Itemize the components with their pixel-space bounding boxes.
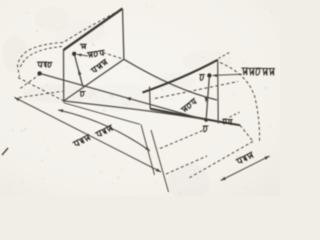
label dakkhin rotated: [91, 59, 108, 74]
ascent ga to ka: [74, 54, 83, 87]
unfolded path ka1 to gha: [40, 73, 207, 120]
insect dot ka: [72, 52, 76, 56]
label kha wall: [200, 75, 205, 81]
right wall hidden diagonal dashed: [155, 82, 238, 99]
unfolded right wall corner dashed: [240, 125, 253, 141]
unfolded right wall bottom dashed: [189, 141, 253, 178]
small mark left edge: [2, 148, 8, 155]
apex small dashes: [219, 52, 232, 59]
descent kha to gha: [206, 76, 209, 121]
unfolded wall outer edge dashed: [18, 78, 64, 101]
small dashes right of gha: [230, 112, 240, 117]
left wall base: [64, 59, 124, 101]
right wall right edge: [217, 60, 220, 124]
label ka-1: [37, 62, 52, 67]
dim 16ft line: [58, 110, 150, 151]
floor back-right edge N to gha: [124, 59, 217, 100]
right wall left edge: [149, 87, 152, 109]
label gha: [203, 126, 208, 132]
path mid arrow: [126, 97, 132, 101]
ka-1 dot: [37, 71, 41, 75]
left wall top edge: [64, 9, 123, 51]
guide line from W corner: [64, 103, 140, 125]
dim bottom right: [221, 156, 270, 181]
extension line 1: [141, 125, 155, 176]
left wall left edge: [63, 50, 65, 103]
descent mid arrow: [205, 97, 208, 102]
hidden base dashed left of N: [103, 53, 124, 60]
left wall right edge: [123, 9, 124, 60]
label ga: [80, 92, 85, 97]
right wall top edge: [143, 60, 218, 93]
dashed mid bottom 2: [166, 156, 207, 174]
label 16ft rotated: [95, 125, 113, 138]
dashed to ka-1: [20, 74, 40, 89]
leader to lizard dot: [213, 74, 243, 75]
right wall base thick: [150, 109, 240, 126]
label ka: [80, 44, 86, 48]
fold arc right: [220, 63, 260, 142]
ascent mid arrow: [78, 70, 81, 76]
dashed horizontal near W: [19, 91, 63, 97]
leader to insect dot: [77, 54, 88, 56]
label poka: [87, 50, 105, 57]
floor front edge: [64, 101, 240, 125]
label 16ft bottom right rotated: [236, 152, 254, 165]
paper speckle noise: [90, 30, 92, 32]
label tiktiki: [242, 68, 275, 75]
extension line 2: [151, 130, 169, 192]
fold arc left inner: [20, 47, 62, 69]
lizard dot kha: [207, 73, 211, 77]
label 20ft rotated: [73, 134, 91, 147]
dashed mid bottom 1: [160, 130, 204, 149]
dim 20ft line: [14, 97, 161, 172]
tiny label near gha right: [223, 119, 233, 124]
fold arc left outer: [18, 11, 120, 77]
label uttor rotated: [181, 98, 198, 112]
gha junction blob: [204, 118, 207, 121]
